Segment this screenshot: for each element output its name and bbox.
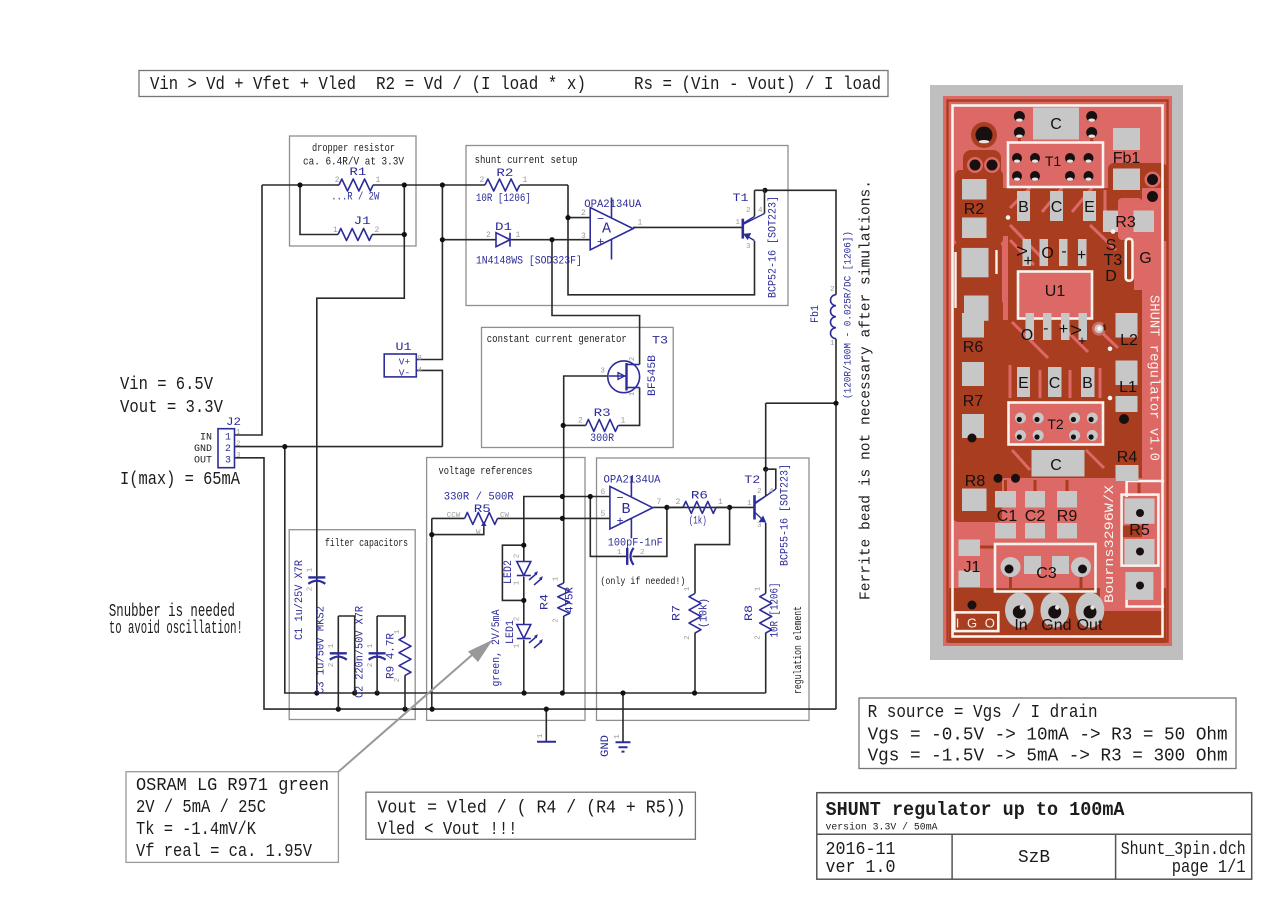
wire: LED1 leads <box>523 600 525 624</box>
svg-text:2: 2 <box>578 417 583 426</box>
wire: op-amp B minus wire <box>524 497 610 546</box>
R source box <box>859 698 1236 769</box>
svg-text:U1: U1 <box>1045 283 1066 300</box>
junction node at 562.4,518.4 <box>560 516 565 521</box>
svg-text:5: 5 <box>601 510 606 519</box>
svg-text:2: 2 <box>486 231 491 240</box>
svg-text:1: 1 <box>394 629 402 634</box>
svg-text:T3: T3 <box>652 335 668 347</box>
svg-text:R2: R2 <box>964 201 985 218</box>
svg-text:1: 1 <box>614 734 622 739</box>
junction node at 404.3,234.5 <box>402 232 407 237</box>
svg-text:L1: L1 <box>1119 379 1137 396</box>
svg-text:2: 2 <box>335 176 340 185</box>
svg-text:2: 2 <box>236 441 241 449</box>
ground symbol GND <box>616 742 631 751</box>
svg-text:1: 1 <box>307 567 315 572</box>
junction node at 568,217.6 <box>565 215 570 220</box>
svg-text:R4: R4 <box>540 594 552 610</box>
svg-text:Vin > Vd + Vfet + Vled: Vin > Vd + Vfet + Vled <box>150 74 356 95</box>
svg-text:1: 1 <box>638 219 643 228</box>
PCB holes <box>968 111 1159 619</box>
svg-text:1: 1 <box>225 433 231 444</box>
svg-text:Vgs = -1.5V -> 5mA -> R3 = 300: Vgs = -1.5V -> 5mA -> R3 = 300 Ohm <box>868 746 1228 767</box>
title block <box>817 793 1252 880</box>
svg-text:Gnd: Gnd <box>1041 617 1071 634</box>
svg-text:R2 = Vd / (I load * x): R2 = Vd / (I load * x) <box>376 74 586 95</box>
svg-text:C3 1u/50V MKS2: C3 1u/50V MKS2 <box>316 606 328 694</box>
svg-text:I G O: I G O <box>956 616 997 631</box>
svg-text:OPA2134UA: OPA2134UA <box>604 475 661 487</box>
svg-text:1: 1 <box>629 391 637 396</box>
wire: branch to T3 drain <box>552 240 640 365</box>
diode D1 <box>496 233 510 247</box>
svg-text:Vin = 6.5V: Vin = 6.5V <box>120 374 213 395</box>
svg-text:BCP52-16 [SOT223]: BCP52-16 [SOT223] <box>768 196 780 298</box>
svg-text:2: 2 <box>684 635 692 640</box>
svg-text:+: + <box>597 236 604 250</box>
wire: GND port stub <box>545 709 547 742</box>
svg-text:OUT: OUT <box>194 456 212 467</box>
svg-text:CCW: CCW <box>447 512 461 520</box>
svg-text:R5: R5 <box>474 504 491 516</box>
svg-text:330R / 500R: 330R / 500R <box>444 492 514 504</box>
svg-text:2: 2 <box>328 663 336 668</box>
svg-text:version 3.3V / 50mA: version 3.3V / 50mA <box>826 822 938 834</box>
junction node at 694.6,693 <box>692 690 697 695</box>
svg-text:LED1: LED1 <box>505 620 517 644</box>
svg-text:E: E <box>1084 199 1095 216</box>
svg-text:C: C <box>1049 375 1061 392</box>
svg-text:ver 1.0: ver 1.0 <box>826 857 896 878</box>
wire: J1 branch left <box>300 185 338 235</box>
group box: constant current generator <box>482 327 674 447</box>
svg-text:Rs = (Vin - Vout) / I load: Rs = (Vin - Vout) / I load <box>634 74 881 95</box>
svg-text:3: 3 <box>581 232 586 241</box>
svg-text:O: O <box>1041 245 1053 262</box>
resistor R9 <box>399 637 411 676</box>
wire: GND riser <box>285 447 317 693</box>
svg-text:SHUNT regulator up to 100mA: SHUNT regulator up to 100mA <box>826 799 1126 821</box>
resistor R3 <box>586 419 618 431</box>
svg-text:1: 1 <box>514 643 522 648</box>
svg-text:Vgs = -0.5V -> 10mA -> R3 = 50: Vgs = -0.5V -> 10mA -> R3 = 50 Ohm <box>868 725 1228 746</box>
wire: op-amp B plus wire / R5 <box>432 517 465 519</box>
svg-text:-: - <box>1043 320 1048 337</box>
svg-text:4: 4 <box>758 207 763 215</box>
junction node at 729.6,507.4 <box>727 505 732 510</box>
PCB render backdrop <box>930 85 1183 660</box>
svg-text:2: 2 <box>514 617 522 622</box>
svg-text:U1: U1 <box>396 342 412 354</box>
op-amp U1B <box>610 486 653 529</box>
svg-text:GND: GND <box>600 735 612 757</box>
svg-text:-: - <box>1061 243 1066 260</box>
svg-text:B: B <box>622 501 631 518</box>
svg-text:1: 1 <box>376 176 381 185</box>
wire: T1 emitter return <box>568 218 755 295</box>
svg-text:2: 2 <box>581 209 586 218</box>
junction node at 431.8,534.6 <box>429 532 434 537</box>
junction node at 552,239.7 <box>549 237 554 242</box>
svg-text:100pF-1nF: 100pF-1nF <box>608 538 663 550</box>
JFET T3 <box>608 361 640 393</box>
svg-text:1: 1 <box>553 576 561 581</box>
svg-text:2: 2 <box>830 286 835 294</box>
svg-text:R8: R8 <box>965 473 986 490</box>
junction node at 765,190.3 <box>762 188 767 193</box>
wire: J2 pin1 riser <box>235 185 263 435</box>
wire: Vin drop to D1/U1 V+ <box>416 185 442 360</box>
svg-text:2: 2 <box>394 678 402 683</box>
wire: J2 pin3 OUT <box>235 458 837 709</box>
svg-text:C: C <box>1051 199 1063 216</box>
svg-text:GND: GND <box>194 444 212 455</box>
capacitor C3 <box>337 616 339 709</box>
svg-text:2V / 5mA / 25C: 2V / 5mA / 25C <box>136 797 266 818</box>
svg-text:C: C <box>1050 457 1062 474</box>
svg-text:C2 220n/50V X7R: C2 220n/50V X7R <box>355 606 367 698</box>
svg-text:IN: IN <box>200 433 212 444</box>
svg-text:R source = Vgs / I drain: R source = Vgs / I drain <box>868 702 1098 723</box>
svg-text:1: 1 <box>514 580 522 585</box>
wire: LED2 bypass loop <box>502 545 523 600</box>
junction node at 836,403.2 <box>833 401 838 406</box>
PCB board <box>943 96 1172 646</box>
svg-text:V+: V+ <box>399 357 411 368</box>
svg-text:LED2: LED2 <box>503 560 515 584</box>
junction node at 354.7,693 <box>352 690 357 695</box>
resistor R1 <box>339 179 373 191</box>
svg-text:1: 1 <box>617 549 622 557</box>
svg-text:Ferrite bead is not necessary: Ferrite bead is not necessary after simu… <box>859 180 875 600</box>
svg-text:C1 1u/25V X7R: C1 1u/25V X7R <box>294 560 306 640</box>
svg-text:3: 3 <box>236 452 241 460</box>
svg-text:1N4148WS [SOD323F]: 1N4148WS [SOD323F] <box>476 256 582 268</box>
svg-text:voltage references: voltage references <box>439 466 533 478</box>
wire: R5 wiper <box>432 523 484 535</box>
resistor R8 <box>760 593 772 633</box>
svg-text:1: 1 <box>830 340 835 348</box>
svg-text:G: G <box>1139 250 1151 267</box>
wire: op-amp A out to T1 base <box>633 226 742 228</box>
svg-text:R9: R9 <box>1057 508 1078 525</box>
svg-text:green, 2V/5mA: green, 2V/5mA <box>491 609 503 686</box>
op-amp U1A <box>590 208 633 250</box>
PCB silk outlines <box>953 106 1165 637</box>
svg-text:T1: T1 <box>1045 153 1062 169</box>
junction node at 563.2,425.4 <box>561 423 566 428</box>
feedback capacitor <box>626 548 628 565</box>
svg-text:Out: Out <box>1077 617 1103 634</box>
wire: GND symbol stub <box>622 693 624 742</box>
junction node at 562.4,496.5 <box>560 494 565 499</box>
wire: D1 anode <box>442 239 496 241</box>
hole glints <box>979 119 1095 610</box>
capacitor C1 <box>308 576 325 578</box>
resistor R7 <box>689 593 701 633</box>
svg-text:2: 2 <box>375 226 380 235</box>
group box: filter capacitors <box>289 530 415 720</box>
svg-text:1: 1 <box>328 643 336 648</box>
svg-text:L2: L2 <box>1120 332 1138 349</box>
wire: Fb1 bottom down to OUT rail <box>835 339 837 709</box>
svg-text:C2: C2 <box>1025 508 1046 525</box>
svg-text:SHUNT regulator v1.0: SHUNT regulator v1.0 <box>1146 295 1161 461</box>
LED2 <box>517 562 531 576</box>
svg-text:10R [1206]: 10R [1206] <box>770 583 782 638</box>
svg-text:1: 1 <box>747 500 752 508</box>
svg-text:1: 1 <box>537 733 545 738</box>
transistor T2 <box>753 495 756 519</box>
svg-text:+: + <box>1059 321 1068 338</box>
svg-text:T2: T2 <box>1047 416 1064 432</box>
svg-text:3: 3 <box>757 522 762 530</box>
svg-text:2: 2 <box>553 618 561 623</box>
svg-text:1: 1 <box>736 219 741 227</box>
junction node at 546.3,709.1 <box>544 707 549 712</box>
svg-text:filter capacitors: filter capacitors <box>325 538 408 550</box>
svg-text:to avoid oscillation!: to avoid oscillation! <box>109 618 243 639</box>
OSRAM note box <box>126 772 338 863</box>
junction node at 523.8,600.4 <box>521 598 526 603</box>
svg-text:(120R/100M - 0.025R/DC [1206]): (120R/100M - 0.025R/DC [1206]) <box>843 231 855 399</box>
wire: T1 collector to Fb1 <box>765 190 836 294</box>
arrow to LED1 <box>338 648 480 772</box>
svg-text:B: B <box>1018 199 1029 216</box>
wire: D1 cathode to op-amp A + <box>510 239 590 241</box>
svg-text:475R: 475R <box>565 587 577 613</box>
wire: J2 pin2 GND <box>235 446 443 448</box>
svg-text:BCP55-16 [SOT223]: BCP55-16 [SOT223] <box>780 464 792 566</box>
wire: LED2 leads <box>523 545 525 561</box>
svg-text:Vf real = ca. 1.95V: Vf real = ca. 1.95V <box>136 841 312 862</box>
svg-text:3: 3 <box>600 367 605 375</box>
junction node at 623,693 <box>620 690 625 695</box>
svg-text:BF545B: BF545B <box>647 355 659 396</box>
svg-text:7: 7 <box>657 498 662 507</box>
group box: regulation element <box>597 458 810 720</box>
svg-text:1: 1 <box>684 586 692 591</box>
U1 power box <box>384 354 416 377</box>
svg-text:1: 1 <box>523 176 528 185</box>
svg-text:4: 4 <box>418 367 423 375</box>
GND net port <box>537 741 556 743</box>
svg-text:2: 2 <box>514 554 522 559</box>
junction node at 562.4,693 <box>560 690 565 695</box>
wire: T2 collector branch <box>766 402 836 404</box>
svg-text:(1k): (1k) <box>689 516 707 528</box>
svg-text:1: 1 <box>367 643 375 648</box>
svg-text:(10k): (10k) <box>699 598 711 628</box>
svg-text:T2: T2 <box>744 475 760 487</box>
svg-text:SzB: SzB <box>1018 847 1050 868</box>
svg-text:R4: R4 <box>1117 449 1138 466</box>
svg-text:1: 1 <box>718 498 723 507</box>
svg-text:1: 1 <box>516 231 521 240</box>
wire: GND rail <box>317 692 766 694</box>
svg-text:R9 4.7R: R9 4.7R <box>386 633 398 679</box>
svg-text:O: O <box>1021 327 1033 344</box>
wire: Vin rail <box>262 184 339 186</box>
svg-text:2: 2 <box>746 207 751 215</box>
svg-text:I(max) = 65mA: I(max) = 65mA <box>120 469 241 490</box>
junction node at 765.7,469.2 <box>763 467 768 472</box>
svg-text:T3: T3 <box>1104 252 1123 269</box>
svg-text:2: 2 <box>307 587 315 592</box>
resistor J1 (jumper) <box>338 229 372 241</box>
svg-text:R2: R2 <box>496 168 513 180</box>
svg-text:4: 4 <box>769 488 774 496</box>
resistor R2 <box>485 179 520 191</box>
svg-text:R1: R1 <box>349 167 367 179</box>
svg-text:W: W <box>476 529 481 537</box>
junction node at 404.3,185 <box>402 182 407 187</box>
group box: dropper resistor <box>290 136 417 246</box>
svg-text:2: 2 <box>367 663 375 668</box>
junction node at 316.8,693 <box>314 690 319 695</box>
junction node at 666.9,507.4 <box>664 505 669 510</box>
formula box <box>139 71 888 97</box>
svg-text:1: 1 <box>333 226 338 235</box>
white vias <box>1092 322 1106 336</box>
svg-text:constant current generator: constant current generator <box>487 334 627 346</box>
svg-text:D: D <box>1105 268 1117 285</box>
resistor R6 <box>683 501 716 513</box>
svg-text:A: A <box>602 221 611 238</box>
svg-text:B: B <box>1082 375 1093 392</box>
svg-text:E: E <box>1018 375 1029 392</box>
svg-text:1: 1 <box>755 586 763 591</box>
svg-text:R6: R6 <box>691 491 708 503</box>
transistor T1 <box>741 219 744 239</box>
svg-text:Vout = 3.3V: Vout = 3.3V <box>120 397 223 418</box>
svg-text:R3: R3 <box>594 408 611 420</box>
wire: feedback cap loop <box>590 497 626 557</box>
potentiometer R5 <box>465 512 498 524</box>
PCB pads <box>959 108 1155 628</box>
svg-text:2: 2 <box>629 357 637 362</box>
svg-text:10R [1206]: 10R [1206] <box>476 193 531 205</box>
svg-text:2: 2 <box>480 176 485 185</box>
svg-text:R3: R3 <box>1115 214 1136 231</box>
junction node at 523.8,545.2 <box>521 543 526 548</box>
group box: voltage references <box>427 458 585 721</box>
svg-text:dropper resistor: dropper resistor <box>312 143 395 155</box>
inductor Fb1 <box>831 295 837 339</box>
svg-text:C3: C3 <box>1036 565 1057 582</box>
resistor R4 <box>558 583 570 616</box>
PCB salmon cutouts <box>967 143 1164 612</box>
junction node at 377.1,693 <box>375 690 380 695</box>
svg-text:300R: 300R <box>590 433 614 445</box>
svg-text:OSRAM LG R971 green: OSRAM LG R971 green <box>136 775 329 796</box>
svg-text:1: 1 <box>621 417 626 426</box>
junction node at 405,709.1 <box>402 707 407 712</box>
svg-text:regulation element: regulation element <box>793 606 805 694</box>
svg-text:Fb1: Fb1 <box>1113 150 1141 167</box>
svg-text:C: C <box>1050 116 1062 133</box>
Vout formula box <box>366 792 696 839</box>
svg-text:Fb1: Fb1 <box>810 305 822 323</box>
svg-text:3: 3 <box>225 456 231 467</box>
junction node at 338.3,709.1 <box>336 707 341 712</box>
wire: op-amp B output <box>653 506 754 508</box>
svg-text:Vled < Vout !!!: Vled < Vout !!! <box>378 819 518 840</box>
svg-text:J1: J1 <box>964 559 981 576</box>
junction node at 590.3,496.5 <box>588 494 593 499</box>
svg-text:Bourns3296W/X: Bourns3296W/X <box>1102 485 1117 603</box>
svg-text:2: 2 <box>640 549 645 557</box>
svg-text:R6: R6 <box>963 339 984 356</box>
junction node at 442.4,239.7 <box>440 237 445 242</box>
svg-text:OPA2134UA: OPA2134UA <box>584 199 641 211</box>
PCB labels <box>963 116 1152 634</box>
svg-text:2: 2 <box>755 635 763 640</box>
svg-text:Tk = -1.4mV/K: Tk = -1.4mV/K <box>136 819 257 840</box>
svg-text:2: 2 <box>676 498 681 507</box>
svg-text:(only if needed!): (only if needed!) <box>600 576 685 588</box>
svg-text:+: + <box>1077 247 1086 264</box>
wire: R2 to op-amp A - <box>568 185 590 218</box>
svg-text:...R / 2W: ...R / 2W <box>331 192 379 204</box>
svg-text:2: 2 <box>757 488 762 496</box>
svg-text:R5: R5 <box>1129 522 1150 539</box>
svg-text:shunt current setup: shunt current setup <box>475 155 578 167</box>
svg-text:J1: J1 <box>354 216 372 228</box>
wire: T3 gate / R3 / vref column <box>564 376 608 425</box>
junction node at 442.4,185 <box>440 182 445 187</box>
junction node at 300,185 <box>297 182 302 187</box>
svg-text:6: 6 <box>601 488 606 497</box>
junction node at 284.8,446.6 <box>282 444 287 449</box>
svg-text:D1: D1 <box>495 222 513 234</box>
PCB copper pours <box>948 101 1168 644</box>
svg-text:R7: R7 <box>672 605 684 621</box>
wire: J1 right to down-left <box>372 234 404 236</box>
svg-text:R7: R7 <box>963 393 984 410</box>
svg-text:+: + <box>1023 253 1032 270</box>
D1 silk lines <box>956 250 997 308</box>
svg-text:2: 2 <box>225 444 231 455</box>
svg-text:+: + <box>1078 333 1086 348</box>
svg-text:CW: CW <box>500 512 510 520</box>
wire: R7 <box>695 507 730 593</box>
svg-text:J2: J2 <box>226 417 241 429</box>
wire: R5 left lead down to OUT rail <box>431 518 433 709</box>
wire: T2 emitter to R8 <box>765 523 767 593</box>
LED1 <box>517 625 531 639</box>
svg-text:R8: R8 <box>744 605 756 621</box>
wire: U1 V- to GND wire <box>416 370 442 446</box>
junction node at 432.1,709.1 <box>430 707 435 712</box>
capacitor C2 <box>376 616 378 693</box>
svg-text:C1: C1 <box>997 508 1018 525</box>
group box: shunt current setup <box>466 146 788 306</box>
junction node at 524.1,693 <box>522 690 527 695</box>
svg-text:V-: V- <box>399 368 410 379</box>
svg-text:3: 3 <box>746 243 751 251</box>
wire: R8 bottom <box>765 633 767 693</box>
svg-text:1: 1 <box>236 429 241 437</box>
wire: R4 bottom <box>563 616 565 693</box>
connector J2 <box>218 429 235 468</box>
svg-text:In: In <box>1014 617 1027 634</box>
svg-text:page 1/1: page 1/1 <box>1172 857 1246 878</box>
svg-text:Vout = Vled / ( R4 / (R4 + R5): Vout = Vled / ( R4 / (R4 + R5)) <box>378 798 686 819</box>
svg-text:T1: T1 <box>733 193 749 205</box>
svg-text:8: 8 <box>418 355 423 363</box>
